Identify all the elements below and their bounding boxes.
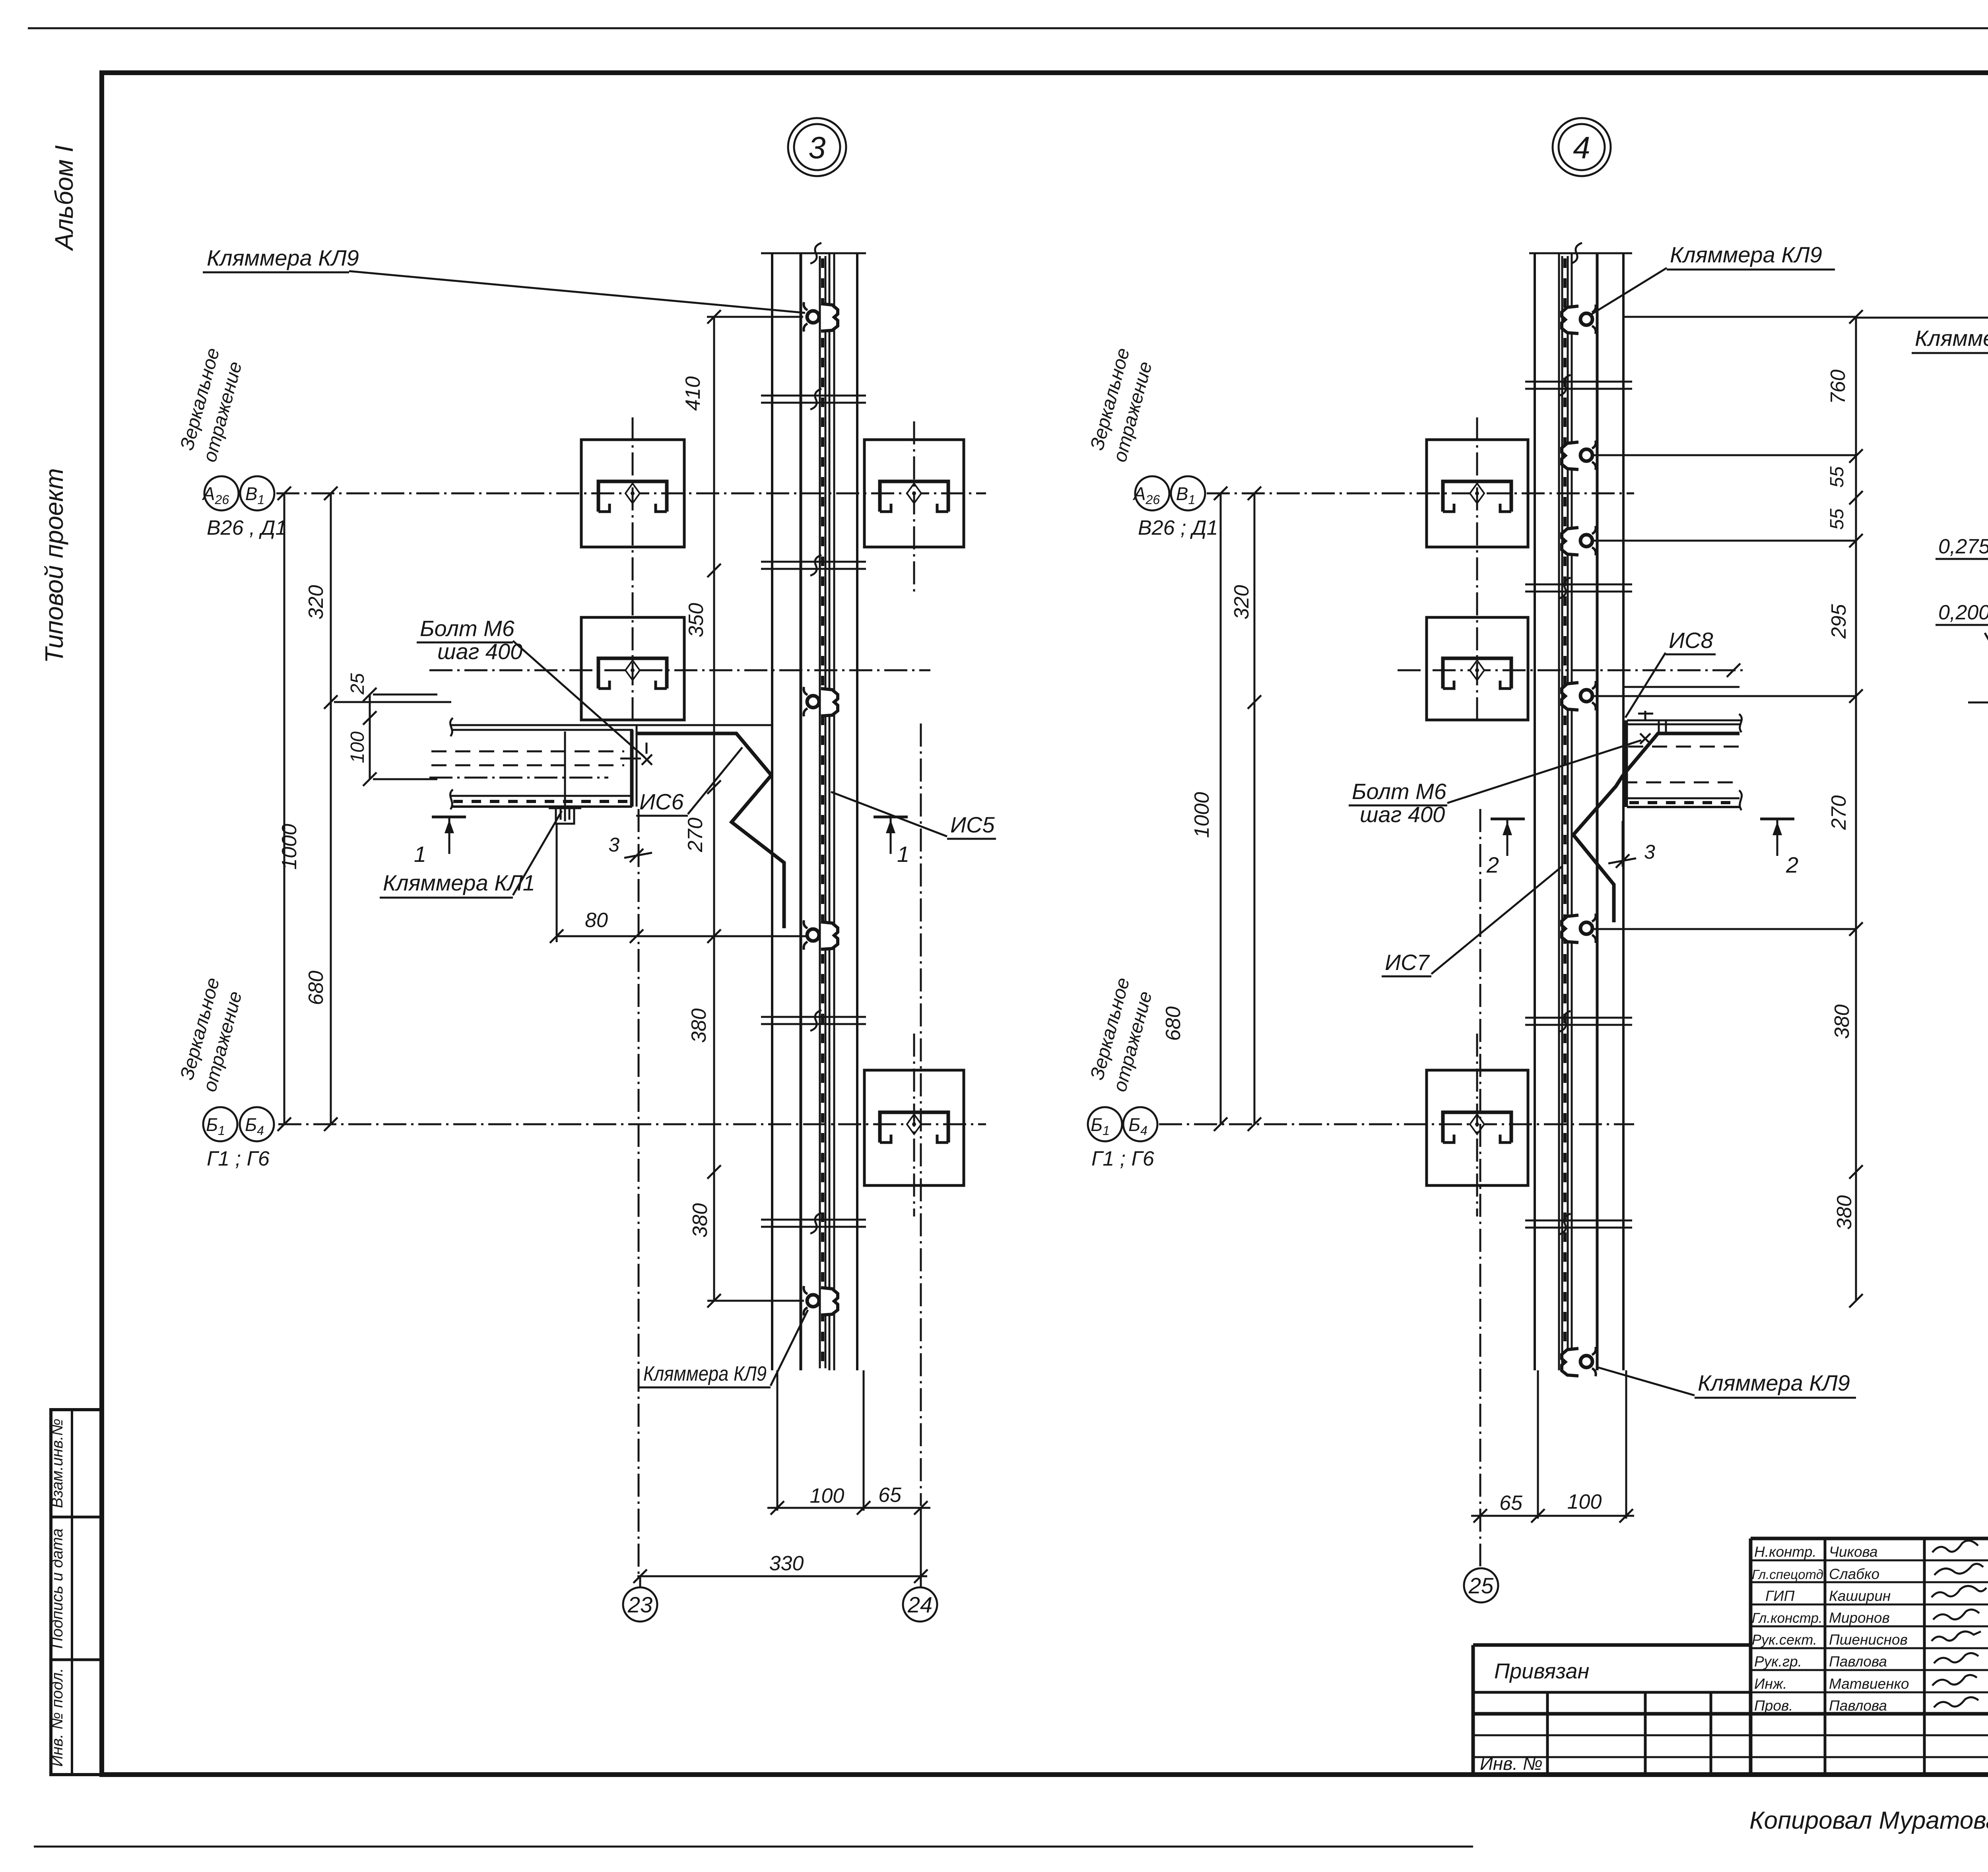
- svg-text:380: 380: [689, 1203, 712, 1238]
- svg-text:Пров.: Пров.: [1754, 1697, 1793, 1714]
- svg-text:100: 100: [347, 731, 368, 763]
- svg-text:380: 380: [1833, 1195, 1856, 1230]
- svg-text:ИС7: ИС7: [1385, 950, 1430, 975]
- svg-text:Кляммера КЛ9: Кляммера КЛ9: [1670, 242, 1822, 267]
- svg-text:2: 2: [1786, 852, 1798, 877]
- svg-text:Привязан: Привязан: [1494, 1659, 1589, 1683]
- svg-text:Кляммера КЛ9: Кляммера КЛ9: [207, 245, 359, 270]
- svg-text:0,275: 0,275: [1938, 535, 1988, 558]
- svg-text:ИС6: ИС6: [639, 789, 684, 814]
- svg-text:Кляммера КЛ1: Кляммера КЛ1: [383, 870, 535, 895]
- svg-text:100: 100: [1567, 1490, 1602, 1513]
- svg-text:2: 2: [1486, 852, 1499, 877]
- svg-text:270: 270: [684, 818, 707, 853]
- svg-text:Пшениснов: Пшениснов: [1829, 1631, 1908, 1648]
- svg-text:1000: 1000: [278, 824, 301, 870]
- svg-text:55: 55: [1827, 466, 1848, 488]
- svg-text:Г1 ; Г6: Г1 ; Г6: [207, 1147, 270, 1170]
- svg-text:3: 3: [608, 834, 619, 856]
- svg-text:3: 3: [1644, 841, 1655, 863]
- svg-text:Г1 ; Г6: Г1 ; Г6: [1091, 1147, 1154, 1170]
- svg-text:Инв. №: Инв. №: [1480, 1753, 1543, 1774]
- svg-text:380: 380: [687, 1009, 711, 1043]
- svg-text:24: 24: [907, 1592, 932, 1617]
- svg-text:Рук.гр.: Рук.гр.: [1754, 1653, 1802, 1670]
- svg-text:Миронов: Миронов: [1829, 1610, 1890, 1626]
- svg-text:270: 270: [1827, 795, 1850, 830]
- svg-text:295: 295: [1827, 604, 1850, 639]
- svg-text:1: 1: [897, 842, 909, 867]
- svg-text:680: 680: [1162, 1007, 1185, 1041]
- svg-text:350: 350: [685, 603, 708, 638]
- svg-text:Инв. № подл.: Инв. № подл.: [49, 1668, 66, 1767]
- svg-text:380: 380: [1831, 1005, 1854, 1039]
- svg-text:Матвиенко: Матвиенко: [1829, 1676, 1909, 1692]
- svg-text:65: 65: [878, 1484, 902, 1507]
- svg-text:Инж.: Инж.: [1754, 1676, 1787, 1692]
- svg-text:В26 , Д1: В26 , Д1: [207, 516, 287, 539]
- svg-text:100: 100: [810, 1484, 845, 1507]
- svg-text:4: 4: [1573, 130, 1590, 165]
- svg-text:Н.контр.: Н.контр.: [1754, 1544, 1817, 1560]
- svg-text:В26 ; Д1: В26 ; Д1: [1138, 516, 1218, 539]
- svg-text:330: 330: [769, 1552, 804, 1575]
- svg-text:Копировал Муратова: Копировал Муратова: [1749, 1807, 1988, 1834]
- svg-text:Кляммера КЛ1: Кляммера КЛ1: [1915, 326, 1988, 351]
- svg-text:Кляммера КЛ9: Кляммера КЛ9: [643, 1362, 767, 1385]
- svg-text:Болт М6: Болт М6: [420, 616, 515, 641]
- svg-text:0,200: 0,200: [1938, 601, 1988, 624]
- svg-text:Павлова: Павлова: [1829, 1653, 1887, 1670]
- svg-text:680: 680: [305, 971, 328, 1005]
- svg-text:Слабко: Слабко: [1829, 1566, 1879, 1582]
- svg-text:Альбом I: Альбом I: [50, 145, 78, 252]
- svg-text:320: 320: [305, 585, 328, 620]
- svg-text:Рук.сект.: Рук.сект.: [1752, 1631, 1817, 1648]
- svg-text:410: 410: [681, 376, 705, 411]
- svg-text:Болт М6: Болт М6: [1352, 779, 1447, 804]
- svg-text:Гл.спецотд: Гл.спецотд: [1752, 1567, 1823, 1582]
- svg-text:Типовой проект: Типовой проект: [40, 468, 68, 663]
- svg-text:760: 760: [1827, 370, 1850, 404]
- svg-text:Взам.инв.№: Взам.инв.№: [49, 1418, 66, 1508]
- svg-text:55: 55: [1827, 508, 1848, 530]
- svg-text:ИС5: ИС5: [950, 812, 995, 837]
- svg-text:Чикова: Чикова: [1829, 1544, 1878, 1560]
- svg-text:Каширин: Каширин: [1829, 1588, 1891, 1604]
- svg-text:Подпись и дата: Подпись и дата: [49, 1529, 66, 1649]
- svg-text:ГИП: ГИП: [1765, 1588, 1795, 1604]
- svg-text:Кляммера КЛ9: Кляммера КЛ9: [1698, 1370, 1850, 1395]
- svg-text:ИС8: ИС8: [1669, 628, 1713, 653]
- svg-text:3: 3: [808, 130, 825, 165]
- svg-text:65: 65: [1499, 1492, 1523, 1515]
- svg-text:80: 80: [585, 909, 608, 932]
- svg-text:Гл.констр.: Гл.констр.: [1752, 1610, 1823, 1626]
- svg-text:1000: 1000: [1190, 792, 1213, 838]
- svg-text:Павлова: Павлова: [1829, 1697, 1887, 1714]
- svg-text:1: 1: [414, 842, 426, 867]
- svg-text:23: 23: [627, 1592, 652, 1617]
- svg-text:320: 320: [1230, 585, 1253, 620]
- svg-text:25: 25: [1468, 1573, 1494, 1598]
- svg-text:25: 25: [347, 673, 368, 695]
